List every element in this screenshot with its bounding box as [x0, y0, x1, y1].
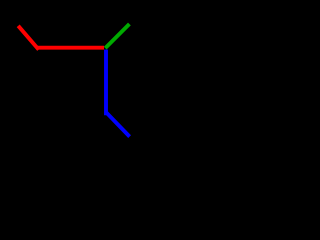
red line diagonal segment	[18, 26, 39, 50]
red line horizontal segment	[36, 46, 104, 50]
green line diagonal segment	[105, 24, 129, 48]
blue line vertical segment	[104, 50, 108, 116]
blue line diagonal segment	[106, 112, 130, 136]
